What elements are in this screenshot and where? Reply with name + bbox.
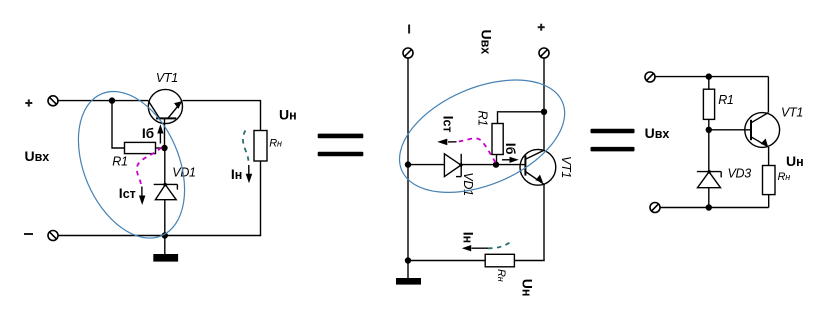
node VD3 apex blob [707,170,711,174]
wire R1 branch vertical [112,101,125,148]
terminal middle top-right [539,48,549,58]
transistor VT1 (right) [745,113,780,148]
ground (middle) [407,261,409,279]
terminal middle top-left [403,48,413,58]
wire R1 bottom lead [708,119,710,129]
svg-text:VT1: VT1 [559,156,573,178]
resistor R1 (middle, vertical) [492,124,503,155]
wire to R1 top (middle) [498,112,545,124]
wire top rail right of transistor [183,100,262,102]
node VD1 apex blob [163,183,167,187]
wire emitter down (middle) [543,184,545,260]
ellipse highlight (middle, blue) [383,57,582,215]
wire R1 top lead [708,77,710,90]
ground (left) [164,236,166,255]
arrow Iб (up, beside base lead) [159,130,161,144]
svg-text:VT1: VT1 [156,71,178,85]
svg-text:R1: R1 [112,155,127,169]
node junction top (R1 branch) [109,97,115,103]
svg-text:Uн: Uн [279,107,297,123]
node bottom junction (middle) [405,257,411,263]
wire left rail (middle) [407,58,409,261]
ellipse highlight (left, blue) [58,75,206,254]
svg-text:R1: R1 [718,93,733,107]
node bottom junction (right) [706,204,712,210]
terminal right bottom [650,203,660,213]
wire R1 to base node [156,147,165,149]
node top junction (right) [706,73,712,79]
node bottom junction [162,232,168,238]
resistor R1 [125,142,156,153]
label + (plus, left input) [25,99,32,106]
node base junction (right) [706,127,712,133]
transistor VT1 (middle) [520,149,556,185]
node base junction (middle) [493,161,499,167]
node VD1 apex blob (middle) [459,163,463,167]
arrow Iн (middle, teal dashed + black head pointing left) [484,243,510,249]
svg-text:Uвх: Uвх [645,125,670,141]
wire collector drop [767,77,769,113]
arrow Iст (magenta dashed curve) [137,148,162,186]
wire top rail [58,100,148,102]
svg-text:VD3: VD3 [728,167,752,181]
arrow Iн (teal dashed + black head) [243,131,249,165]
transistor VT1 (left) [148,89,182,123]
svg-text:Iст: Iст [441,116,457,133]
node left rail junction (middle) [405,161,411,167]
node top-right junction (middle) [541,109,547,115]
wire bottom rail [58,235,261,237]
wire bottom rail (middle) [408,260,485,262]
label − (minus, left input) [24,233,33,235]
arrow Iб (middle, right beside wire) [502,159,512,161]
svg-text:Rн: Rн [495,269,507,282]
terminal bottom-left [48,231,58,241]
resistor Rн (middle, horizontal) [485,254,514,266]
resistor R1 (right, vertical) [703,89,714,119]
svg-text:VD1: VD1 [461,172,475,195]
wire base lead [164,118,166,148]
wire top rail (right circuit) [655,76,769,78]
svg-text:R1: R1 [476,111,490,126]
zener VD1 [154,148,178,236]
wire R1 bottom to node (middle) [496,155,498,165]
svg-text:Iн: Iн [460,232,476,243]
wire bottom rail (right circuit) [660,207,769,209]
resistor Rн (right) [763,166,776,195]
wire Rн bottom lead [768,195,770,208]
label − (rotated, middle top-left) [408,25,410,34]
wire base lead (right) [709,129,751,131]
svg-text:VT1: VT1 [781,105,803,119]
svg-text:Uн: Uн [786,153,804,169]
svg-text:Rн: Rн [269,137,282,149]
wire Rн right to rail (middle) [514,260,544,262]
svg-text:Iн: Iн [231,166,242,182]
zener VD3 [697,172,721,208]
equals sign 1 [318,134,364,157]
wire right rail upper (middle) [543,58,545,151]
resistor Rн (left) [254,131,267,162]
svg-text:Uвх: Uвх [478,30,494,55]
svg-text:Rн: Rн [778,171,791,183]
zener VD1 (middle, horizontal) [444,154,525,177]
svg-text:Iб: Iб [142,125,154,141]
svg-text:Iб: Iб [503,143,519,155]
wire right rail lower [260,161,262,236]
wire mid horizontal (middle) [408,164,444,166]
wire right rail upper [260,101,262,131]
wire zener branch [708,130,710,172]
equals sign 2 [591,129,635,152]
svg-text:Uвх: Uвх [25,148,50,164]
svg-text:Uн: Uн [520,279,536,297]
arrow Iст (middle, magenta dashed) [457,138,496,162]
node base junction [161,145,167,151]
terminal right top [645,72,655,82]
svg-text:Iст: Iст [119,185,136,201]
wire emitter to Rн [768,147,770,166]
terminal top-left [48,96,58,106]
label + (middle top-right) [538,24,545,31]
